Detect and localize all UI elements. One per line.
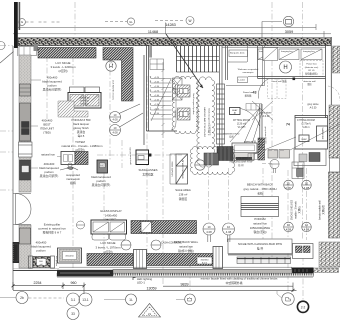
grid bubble W: [155, 17, 194, 25]
svg-text:NICHE WITH: NICHE WITH: [234, 157, 248, 160]
svg-text:400x900: 400x900: [175, 110, 177, 117]
svg-text:SALE AREA: SALE AREA: [175, 188, 191, 192]
svg-text:4.08: 4.08: [285, 186, 291, 190]
svg-text:+2.90: +2.90: [154, 86, 160, 88]
seat grid below: [246, 104, 262, 111]
triangle symbol: [139, 304, 161, 318]
cloud 1 with 900 boxes: [172, 76, 198, 133]
svg-text:SEAT: SEAT: [301, 138, 307, 141]
svg-text:10: 10: [207, 225, 211, 229]
svg-text:hanging bar: hanging bar: [303, 50, 315, 53]
gray hatch zone: [58, 101, 88, 117]
svg-text:WARDROBE: WARDROBE: [321, 128, 324, 140]
svg-text:10: 10: [305, 223, 309, 227]
svg-text:grey stone A 0.30: grey stone A 0.30: [264, 127, 267, 145]
entrance assembly right: [293, 244, 314, 259]
fixtures below middle fitting room: [232, 143, 257, 153]
svg-text:detector wall: detector wall: [303, 80, 316, 83]
suspended mannequin: [60, 163, 78, 170]
svg-text:3059: 3059: [285, 30, 293, 34]
svg-text:DISPLAY: DISPLAY: [80, 100, 90, 103]
svg-text:大理石墙: 大理石墙: [321, 205, 325, 215]
fitting room: [295, 116, 328, 150]
svg-text:3-1: 3-1: [71, 298, 76, 302]
svg-text:LUX NICHE 3 levels: LUX NICHE 3 levels: [112, 80, 114, 101]
svg-text:HANGING BAR RTW: HANGING BAR RTW: [230, 161, 254, 164]
vertical grid dash-dot lines: [47, 2, 307, 301]
svg-text:+3.05: +3.05: [154, 81, 160, 83]
hatch wall B L-shaped: [103, 48, 133, 102]
svg-text:挂 杆: 挂 杆: [257, 247, 264, 251]
svg-text:4.08: 4.08: [112, 131, 118, 135]
cloud 2 narrow: [197, 77, 215, 167]
washer grid: [292, 162, 304, 179]
cloud 3 horizontal with niche: [190, 147, 235, 175]
svg-text:500x500: 500x500: [80, 104, 89, 106]
right stone speckle wall: [329, 172, 340, 238]
svg-text:BY LD: BY LD: [308, 70, 315, 72]
svg-text:(2层列): (2层列): [58, 69, 67, 73]
svg-text:现有柱体 9 H 7: 现有柱体 9 H 7: [43, 231, 62, 235]
svg-text:2-2: 2-2: [301, 305, 306, 309]
svg-text:+2.15: +2.15: [154, 108, 160, 110]
far right wall: [326, 37, 332, 118]
svg-text:Banquets desk: Banquets desk: [230, 51, 245, 54]
totem fixture: [61, 152, 75, 165]
svg-text:4.08: 4.08: [112, 118, 118, 122]
door arcs left wall: [13, 194, 31, 225]
svg-text:大理石: 大理石: [297, 206, 301, 214]
LED lighting label: [133, 278, 136, 281]
svg-text:2254: 2254: [34, 281, 42, 285]
svg-text:+3.20: +3.20: [154, 77, 160, 79]
svg-text:mannequin: mannequin: [243, 72, 255, 74]
svg-text:+2.00: +2.00: [154, 113, 160, 115]
hatch wall A: [38, 48, 96, 59]
svg-text:natural iron: natural iron: [179, 244, 193, 248]
svg-text:4.08: 4.08: [206, 230, 212, 234]
svg-text:grey stone A 0.30: grey stone A 0.30: [129, 147, 132, 165]
svg-text:挂 杆: 挂 杆: [238, 163, 244, 167]
svg-text:GL: GL: [129, 20, 133, 24]
entrance dark bar: [292, 268, 314, 274]
svg-text:模特: 模特: [70, 181, 76, 185]
svg-text:+2.45: +2.45: [154, 99, 160, 101]
svg-text:销售区: 销售区: [179, 197, 188, 201]
svg-text:4.08: 4.08: [304, 228, 310, 232]
svg-text:DESK BACK WALL: DESK BACK WALL: [174, 240, 199, 244]
svg-text:black lacquered podium: black lacquered podium: [192, 93, 194, 114]
grid bubble GL: [105, 18, 135, 25]
svg-text:1400x450 2000H: 1400x450 2000H: [172, 161, 174, 177]
svg-text:960: 960: [71, 281, 77, 285]
banquets desk room: [222, 46, 326, 86]
svg-text:10: 10: [286, 182, 290, 186]
svg-text:Locker: Locker: [239, 79, 246, 82]
dimension line 14283: [13, 23, 331, 38]
svg-text:10: 10: [305, 182, 309, 186]
svg-text:H: H: [283, 65, 287, 71]
hanging bar boxes with diagonals: [258, 49, 322, 60]
svg-text:exterior facade fitted with cl: exterior facade fitted with cladding of …: [201, 277, 278, 281]
svg-text:4.08: 4.08: [226, 230, 232, 234]
svg-text:FITTING ROOM: FITTING ROOM: [233, 120, 250, 122]
svg-text:Power box: Power box: [306, 63, 317, 66]
svg-text:450x450: 450x450: [65, 256, 74, 258]
H bubbles: [106, 61, 292, 73]
X-braced box right of stair: [173, 78, 183, 100]
svg-text:138 m²: 138 m²: [179, 192, 188, 196]
glyphs inside circles: [188, 298, 192, 302]
lower room below fitting: [294, 149, 326, 166]
svg-text:(TBD): (TBD): [43, 131, 51, 135]
svg-text:4.08: 4.08: [304, 186, 310, 190]
svg-text:13-1: 13-1: [82, 298, 89, 302]
svg-text:33: 33: [71, 312, 75, 316]
leader diagonals: [252, 101, 340, 155]
middle fitting room: [230, 108, 241, 115]
svg-text:(detector use): (detector use): [305, 66, 319, 69]
svg-text:PODIUM: PODIUM: [254, 217, 266, 221]
cabinet row: [237, 257, 291, 264]
svg-text:+2.75: +2.75: [154, 90, 160, 92]
svg-text:grey natural... 1950 x600H: grey natural... 1950 x600H: [244, 187, 277, 191]
dashed door arc right edge: [328, 86, 340, 101]
svg-text:(2.26 m²): (2.26 m²): [237, 122, 247, 125]
svg-text:1400x450: 1400x450: [105, 213, 118, 217]
grid bubble Q (section marker): [262, 16, 294, 38]
split circles right: [195, 160, 312, 242]
svg-text:SUNGLASSES: SUNGLASSES: [139, 168, 158, 172]
columns: [134, 247, 223, 269]
svg-text:14283: 14283: [165, 23, 176, 27]
svg-text:V1.07H: V1.07H: [238, 127, 246, 129]
leaders: [0, 291, 282, 300]
svg-text:FITTING ROOM: FITTING ROOM: [297, 119, 314, 122]
svg-text:HANGING ROD: HANGING ROD: [224, 133, 240, 136]
svg-text:SEAT: SEAT: [232, 109, 238, 112]
svg-text:(2.75m²): (2.75m²): [301, 123, 310, 126]
svg-text:铁台(活动): 铁台(活动): [253, 230, 266, 234]
svg-text:10: 10: [227, 225, 231, 229]
svg-text:natural iron: natural iron: [253, 221, 267, 225]
svg-text:LUX NICHE: LUX NICHE: [101, 241, 116, 245]
svg-text:A 0.30: A 0.30: [310, 106, 317, 109]
boxes in strip: [19, 84, 33, 244]
svg-text:hanging bar: hanging bar: [281, 50, 293, 53]
svg-text:SMOKE SHELVES: SMOKE SHELVES: [291, 200, 294, 221]
svg-text:LED-1: LED-1: [137, 281, 145, 285]
svg-text:2b: 2b: [20, 296, 24, 300]
grid bubble G (top-left): [19, 19, 62, 26]
svg-text:900: 900: [181, 88, 185, 93]
svg-text:9839: 9839: [181, 282, 189, 286]
svg-text:LS: LS: [148, 312, 151, 316]
svg-text:HANGING BAR RTW 900x450: HANGING BAR RTW 900x450: [203, 107, 206, 138]
niche with hanging bar RTW box: [228, 239, 292, 254]
svg-text:黑漆台(可调节): 黑漆台(可调节): [40, 174, 59, 178]
split circles below cash desk: [121, 240, 161, 250]
right square podium: [58, 248, 82, 263]
svg-text:H: H: [109, 64, 113, 70]
svg-text:600: 600: [100, 165, 105, 168]
power box dashed label right: [300, 61, 323, 77]
svg-text:Welcome suspended: Welcome suspended: [238, 69, 259, 71]
top-left black column bar: [14, 2, 18, 48]
svg-text:中式砖砌外墙: 中式砖砌外墙: [226, 281, 243, 285]
top exterior wall brick band: [18, 38, 331, 46]
svg-text:xH: xH: [40, 264, 43, 266]
left wall vertical line: [12, 46, 14, 290]
svg-text:黑漆台(可调节): 黑漆台(可调节): [43, 88, 62, 92]
svg-text:(2层列): (2层列): [103, 250, 112, 254]
svg-text:BENCH WITH BACK: BENCH WITH BACK: [247, 183, 273, 187]
stair direction arrow: [166, 34, 203, 88]
ladder shelf: [217, 84, 225, 144]
window display: [170, 154, 188, 184]
svg-text:400x900: 400x900: [175, 87, 177, 94]
svg-text:4.08: 4.08: [286, 228, 292, 232]
svg-text:+2.30: +2.30: [154, 104, 160, 106]
door arc + dashed panel: [258, 79, 268, 99]
svg-text:GLASS DISPLAY: GLASS DISPLAY: [100, 209, 122, 213]
split circle tags (left pair): [110, 104, 144, 136]
svg-text:3 levels / L 1970mm: 3 levels / L 1970mm: [96, 245, 122, 249]
svg-text:1L: 1L: [129, 298, 133, 302]
svg-text:350/350: 350/350: [201, 259, 210, 261]
svg-text:13059: 13059: [147, 287, 157, 291]
svg-text:每0.5: 每0.5: [78, 134, 85, 138]
svg-text:NICHE WITH HANGING BAR RTW: NICHE WITH HANGING BAR RTW: [238, 242, 282, 246]
svg-text:长椅: 长椅: [257, 191, 263, 195]
svg-text:GLASS AV: GLASS AV: [79, 97, 90, 100]
center dim ticks column: [162, 62, 165, 138]
svg-text:natural iron: natural iron: [55, 256, 58, 266]
svg-text:1650x600x450H: 1650x600x450H: [250, 226, 270, 230]
svg-text:铁(饰介金板): 铁(饰介金板): [178, 249, 194, 253]
svg-text:900: 900: [181, 111, 185, 116]
svg-text:11468: 11468: [148, 30, 158, 34]
svg-text:74: 74: [286, 123, 290, 127]
svg-text:podium: podium: [36, 249, 46, 253]
svg-text:+2.60: +2.60: [154, 95, 160, 97]
svg-text:natural iron: natural iron: [41, 153, 55, 157]
svg-text:太阳镜区: 太阳镜区: [142, 173, 153, 177]
hatched wall piece mid right: [258, 138, 265, 160]
wall line bottom left: [13, 270, 59, 272]
svg-text:43: 43: [253, 91, 257, 95]
svg-text:A 0.6: A 0.6: [202, 261, 208, 264]
split circle tag left-bottom: [77, 221, 85, 229]
left edge circle tag: [0, 42, 5, 50]
center wall by stair: [219, 46, 227, 155]
horizontal grid dash-dot lines: [0, 46, 182, 191]
svg-text:1.20 m: 1.20 m: [302, 126, 309, 129]
svg-text:WINDOW DISPLAY: WINDOW DISPLAY: [182, 159, 185, 179]
existing pillar dark: [13, 242, 20, 263]
svg-text:W: W: [188, 19, 191, 23]
svg-text:黑漆台(可调节): 黑漆台(可调节): [92, 183, 111, 187]
top-left strip entry box: [19, 47, 37, 56]
svg-text:10: 10: [287, 223, 291, 227]
